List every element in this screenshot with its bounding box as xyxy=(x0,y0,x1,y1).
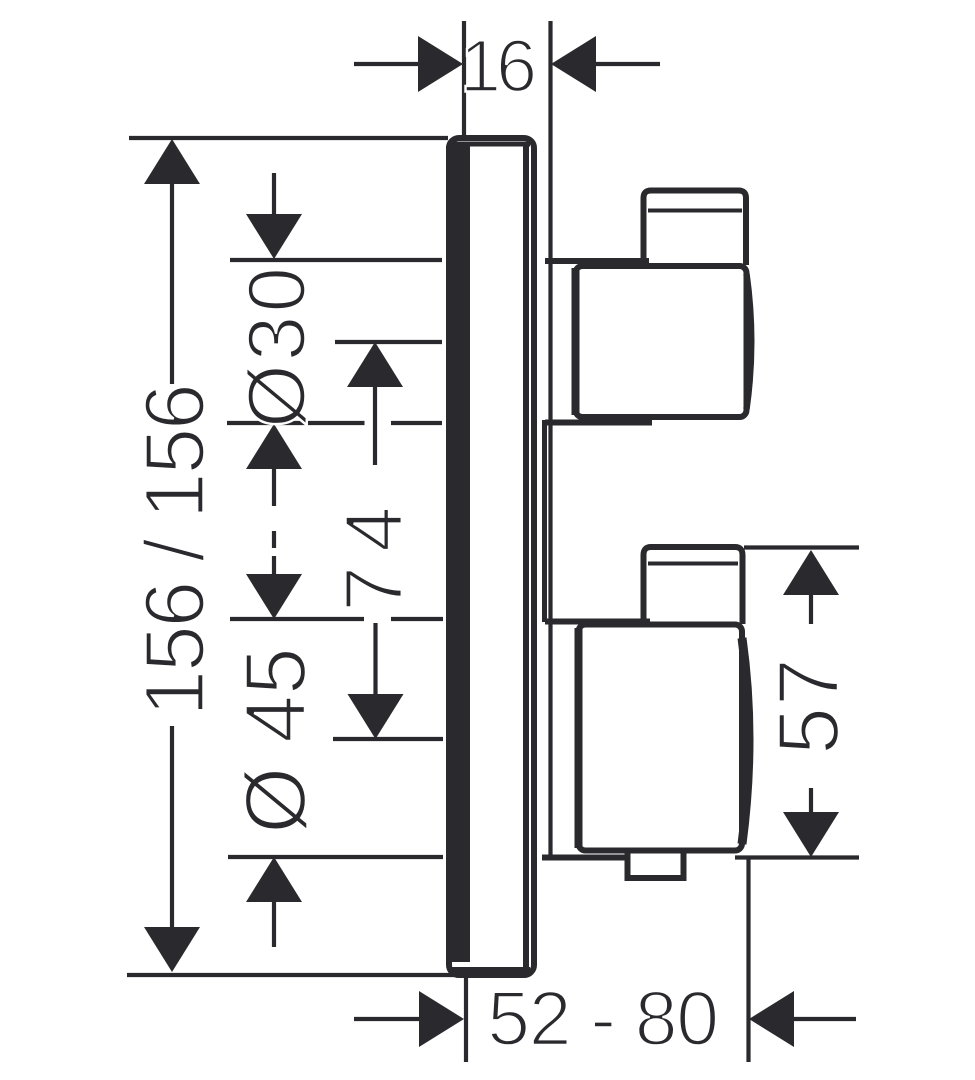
svg-text:Ø 45: Ø 45 xyxy=(228,647,324,833)
svg-text:16: 16 xyxy=(460,25,534,108)
svg-text:156 / 156: 156 / 156 xyxy=(128,385,222,716)
svg-text:57: 57 xyxy=(761,657,857,755)
svg-text:74: 74 xyxy=(329,492,420,611)
svg-text:52 - 80: 52 - 80 xyxy=(487,976,717,1062)
svg-text:Ø30: Ø30 xyxy=(232,264,323,428)
